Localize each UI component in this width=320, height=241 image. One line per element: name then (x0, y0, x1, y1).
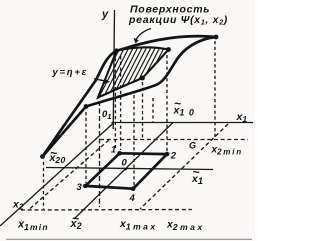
node G grid: dashed boundary x1max (right diagonal) (140, 124, 228, 209)
node dot x20 on surface (40, 154, 45, 159)
wire: dashed projection point 3 up to surface (85, 112, 87, 183)
svg-text:x2max: x2max (166, 219, 205, 233)
wire: dashed projection point 4 (133, 95, 135, 186)
node dot hatch corner B (166, 47, 171, 52)
node G grid: dashed boundary x2min (top horizontal) (100, 139, 248, 141)
wire: dashed projection beside y axis (114, 58, 116, 150)
node hatched patch outline (98, 47, 169, 97)
wire: dashed projection below point x20 (43, 162, 45, 209)
node dot point 1 (117, 151, 122, 156)
node x~2 axis (74, 123, 173, 220)
node surface back edge curve (43, 36, 217, 156)
wire: scan bottom border (6, 238, 252, 240)
node x2 axis (0, 123, 114, 226)
node dot point 3 (83, 184, 88, 189)
node G grid: dashed boundary x1min (left diagonal) (30, 140, 109, 209)
node dot center 0 (125, 168, 127, 170)
wire: dashed projection point 2 / hatch corner B (166, 55, 168, 153)
node surface left edge (43, 107, 87, 157)
node dot surface right corner (214, 35, 219, 40)
wire: dashed projection from hatch corner D down (99, 101, 101, 207)
svg-text:y = η + ε: y = η + ε (52, 67, 87, 78)
svg-text:01: 01 (102, 109, 111, 121)
svg-text:~: ~ (50, 146, 57, 160)
wire: dashed projection surface right corner (214, 41, 216, 140)
wire: dashed projection point 1 / hatch corner A (120, 56, 122, 150)
svg-text:0: 0 (122, 158, 128, 169)
node y axis (113, 10, 114, 129)
wire: dashed projection hatch corner C to x1 axis (142, 82, 144, 140)
wire: arrow from title to surface (136, 29, 152, 41)
node dot point 4 (131, 186, 136, 191)
wire: dashed short projection on front curve (152, 98, 154, 123)
svg-text:y: y (101, 9, 109, 21)
node dot hatch corner A (114, 48, 119, 53)
node G grid: dashed boundary x2max (bottom horizontal) (21, 209, 192, 212)
node surface front edge curve (86, 37, 216, 107)
svg-text:2: 2 (170, 150, 177, 161)
svg-text:4: 4 (129, 193, 136, 204)
node dot front-left corner of surface (84, 104, 89, 109)
svg-text:x2: x2 (12, 199, 24, 212)
svg-text:3: 3 (77, 182, 83, 193)
svg-text:~: ~ (72, 212, 79, 226)
node base design parallelogram 1-2-4-3 (85, 153, 167, 188)
svg-text:1: 1 (111, 145, 116, 155)
svg-text:x1: x1 (236, 111, 248, 124)
svg-text:x1max: x1max (119, 218, 158, 232)
node x~1 axis (46, 168, 213, 170)
svg-text:G: G (189, 141, 196, 151)
svg-text:реакции Ψ(x1, x2): реакции Ψ(x1, x2) (128, 14, 228, 27)
node dot point 2 (165, 152, 170, 157)
node x1 axis (112, 122, 254, 124)
wire: arrow from y=eta label to hatch (94, 79, 107, 81)
svg-text:~: ~ (174, 97, 181, 111)
svg-text:x1min: x1min (17, 219, 49, 233)
svg-text:~: ~ (193, 165, 200, 179)
svg-text:x2min: x2min (211, 145, 243, 157)
node dot hatch corner C (140, 76, 145, 81)
